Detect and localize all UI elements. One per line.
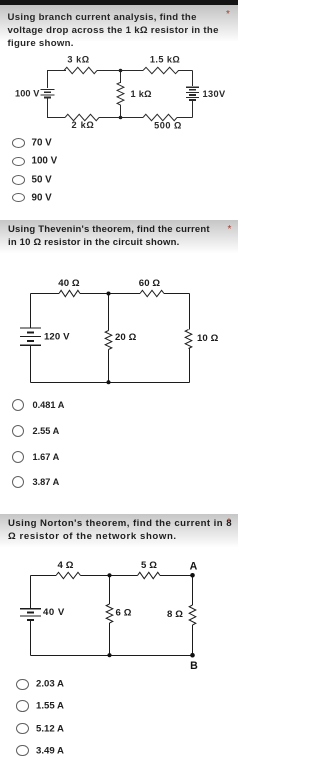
wire middle branch c2 below 20 Ohm [108, 350, 110, 383]
wire middle branch c3 above 6 Ohm [109, 576, 111, 605]
wire bottom rail c1: R3 to R4 through node [99, 117, 143, 119]
node B dot [190, 653, 195, 658]
node bottom middle c2 [107, 380, 111, 384]
radio option 2.03 A [16, 679, 29, 690]
wire middle branch c1 above R5 [120, 71, 122, 84]
wire right rail c2 below 10 Ohm [189, 349, 191, 383]
node bottom middle c1 [119, 116, 123, 120]
svg-text:1 kΩ: 1 kΩ [131, 89, 152, 99]
wire top rail c2: left corner to 40 Ohm [31, 293, 60, 295]
svg-text:2 kΩ: 2 kΩ [72, 120, 95, 130]
svg-text:10 Ω: 10 Ω [197, 333, 219, 344]
node top middle c1 [119, 69, 123, 73]
resistor 5 Ohm [138, 572, 161, 578]
radio option 100 V [12, 157, 25, 167]
resistor 8 Ohm [189, 605, 196, 625]
node bottom middle c3 [107, 653, 111, 657]
svg-text:B: B [190, 660, 198, 672]
wire bottom rail c1: R4 to right corner [177, 117, 193, 119]
wire middle branch c3 below 6 Ohm [109, 623, 111, 655]
svg-text:100 V: 100 V [15, 88, 40, 98]
wire left rail c2 below battery 120 V [30, 346, 32, 383]
wire left rail c3 below battery 40 V [30, 620, 32, 655]
svg-text:500 Ω: 500 Ω [154, 121, 182, 131]
svg-text:A: A [190, 561, 198, 573]
svg-text:1.5 kΩ: 1.5 kΩ [150, 54, 180, 64]
resistor 10 Ohm [185, 330, 192, 349]
svg-text:6 Ω: 6 Ω [116, 608, 132, 619]
wire middle branch c2 above 20 Ohm [108, 294, 110, 331]
wire bottom rail c3 [31, 654, 193, 656]
radio option 0.481 A [12, 399, 24, 411]
wire bottom rail c2 [31, 382, 190, 384]
wire top rail c3: left corner to 4 Ohm [31, 575, 57, 577]
wire left rail c2 above battery 120 V [30, 294, 32, 328]
resistor R2 1.5 kOhm [143, 67, 179, 73]
node top middle c2 [107, 292, 111, 296]
header shadow gradient q3 [0, 514, 238, 547]
battery V2 130V [186, 86, 199, 88]
node A dot [190, 573, 195, 578]
svg-text:8 Ω: 8 Ω [167, 609, 183, 620]
wire top rail c3: 5 Ohm to node A [160, 575, 193, 577]
svg-text:120 V: 120 V [44, 332, 70, 343]
battery 120 V [20, 327, 41, 329]
header shadow gradient q2 [0, 220, 238, 253]
required asterisk q2 [228, 224, 232, 235]
wire left rail c3 above battery 40 V [30, 576, 32, 609]
svg-text:3 kΩ: 3 kΩ [67, 54, 89, 64]
wire right rail c2 above 10 Ohm [189, 294, 191, 330]
wire right rail c3: node A to 8 Ohm [192, 576, 194, 606]
wire top rail c3: 4 Ohm to 5 Ohm through node [81, 575, 138, 577]
svg-text:5 Ω: 5 Ω [141, 560, 157, 571]
radio option 3.87 A [12, 476, 24, 488]
resistor R4 500 Ohm [143, 114, 177, 120]
svg-text:130V: 130V [203, 89, 227, 99]
wire top rail c1: R2 to right corner [178, 70, 193, 72]
circuit schematic q2 [0, 268, 238, 392]
resistor 4 Ohm [56, 572, 81, 578]
resistor 20 Ohm [105, 331, 112, 350]
resistor 60 Ohm [140, 290, 164, 296]
svg-text:20 Ω: 20 Ω [115, 332, 137, 343]
wire top rail c2: 40 Ohm to 60 Ohm through node [80, 293, 140, 295]
resistor R3 2 kOhm [65, 114, 99, 120]
required asterisk q3 [227, 517, 231, 528]
battery V1 100 V [41, 89, 55, 91]
header shadow gradient q1 [0, 5, 238, 41]
wire top rail c1: R1 to R2 through node [97, 70, 143, 72]
question 3 text [8, 517, 246, 544]
radio option 1.67 A [12, 451, 24, 463]
wire left rail c1 below battery V1 [47, 99, 49, 118]
required asterisk q1 [226, 9, 230, 20]
resistor R1 3 kOhm [64, 67, 97, 73]
wire bottom rail c1: left corner to R3 [47, 117, 65, 119]
resistor 6 Ohm [106, 604, 113, 623]
radio option 2.55 A [12, 425, 24, 437]
wire left rail c1 above battery V1 [47, 71, 49, 89]
resistor 40 Ohm [59, 290, 80, 296]
circuit schematic q3 [0, 548, 238, 672]
radio option 70 V [12, 138, 25, 148]
wire right rail c1 below battery V2 [192, 101, 194, 118]
wire right rail c1 above battery V2 [192, 71, 194, 87]
battery 40 V [20, 608, 41, 610]
svg-text:40 V: 40 V [43, 607, 65, 618]
node top middle c3 [107, 573, 111, 577]
resistor R5 1 kOhm [117, 82, 124, 105]
radio option 1.55 A [16, 700, 29, 711]
wire top rail c1: left corner to R1 [47, 70, 66, 72]
wire top rail c2: 60 Ohm to right corner [164, 293, 190, 295]
radio option 5.12 A [16, 723, 29, 734]
svg-text:40 Ω: 40 Ω [58, 278, 80, 289]
wire right rail c3: 8 Ohm to node B [192, 625, 194, 655]
radio option 90 V [12, 193, 25, 203]
svg-text:60 Ω: 60 Ω [139, 278, 161, 289]
radio option 50 V [12, 175, 25, 185]
wire middle branch c1 below R5 [120, 105, 122, 118]
svg-text:4 Ω: 4 Ω [58, 560, 74, 571]
radio option 3.49 A [16, 745, 29, 756]
question 1 text [8, 11, 242, 51]
question 2 text [8, 223, 234, 250]
circuit schematic q1 [0, 52, 238, 134]
top app bar shadow edge [0, 0, 238, 5]
